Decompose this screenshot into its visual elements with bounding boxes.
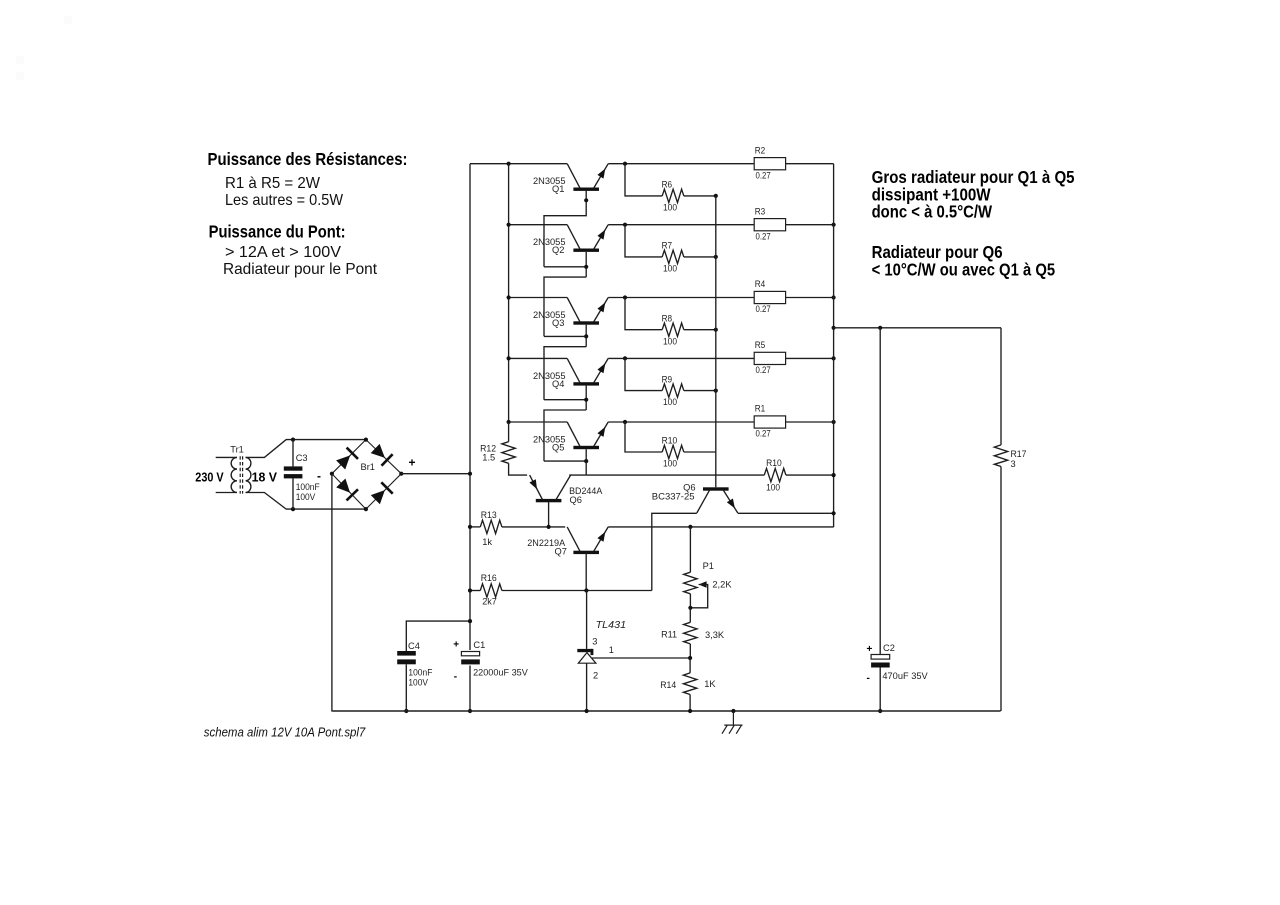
svg-text:3: 3 bbox=[592, 637, 597, 647]
wire R9 to bus bbox=[684, 390, 716, 392]
text block: Puissance des Résistances bbox=[208, 149, 408, 209]
svg-text:+: + bbox=[867, 644, 873, 655]
transistor Q1 2N3055 bbox=[533, 164, 608, 195]
wire top bus bbox=[470, 163, 567, 165]
svg-text:3,3K: 3,3K bbox=[705, 630, 725, 640]
svg-text:R10: R10 bbox=[662, 436, 678, 446]
node output bus R4 bbox=[832, 295, 836, 299]
wire TL431 ref bbox=[592, 657, 690, 659]
wire emitter drop Q4 bbox=[625, 358, 662, 390]
svg-text:R1: R1 bbox=[755, 404, 766, 414]
resistor R5 0.27 bbox=[754, 340, 785, 375]
svg-text:Tr1: Tr1 bbox=[230, 444, 244, 454]
resistor R13 1k bbox=[470, 510, 565, 547]
node R8 bus bbox=[714, 328, 718, 332]
svg-text:-: - bbox=[317, 469, 321, 483]
node emitter Q5 bbox=[623, 420, 627, 424]
wire emitter drop Q2 bbox=[625, 225, 662, 257]
node output bus R3 bbox=[832, 223, 836, 227]
transistor Q6 BC337-25 bbox=[652, 482, 738, 513]
node Q6b emitter / output bus bbox=[832, 511, 836, 515]
wire collector bus bbox=[508, 164, 510, 422]
svg-text:3: 3 bbox=[1011, 459, 1016, 469]
svg-text:100: 100 bbox=[663, 397, 677, 407]
node C1 rail bbox=[468, 709, 472, 713]
svg-text:R11: R11 bbox=[661, 629, 677, 639]
wire left bus bbox=[469, 164, 471, 711]
svg-text:Br1: Br1 bbox=[361, 462, 375, 472]
wire bridge + output bbox=[401, 473, 470, 475]
wire ground rail bbox=[332, 710, 1000, 712]
svg-text:> 12A et > 100V: > 12A et > 100V bbox=[225, 244, 341, 261]
wire Q6b collector bbox=[652, 513, 697, 590]
wire R10 to bus bbox=[684, 451, 716, 453]
node emitter Q3 bbox=[623, 295, 627, 299]
wire collector Q3 bbox=[509, 297, 568, 299]
node base Q2 bbox=[584, 265, 588, 269]
node Q6 base / Q7 collector bbox=[547, 525, 551, 529]
svg-text:Puissance du Pont:: Puissance du Pont: bbox=[209, 222, 346, 242]
svg-text:R8: R8 bbox=[662, 313, 673, 323]
svg-text:0.27: 0.27 bbox=[756, 304, 771, 314]
node collector bus Q5 bbox=[507, 420, 511, 424]
svg-text:230 V: 230 V bbox=[195, 469, 223, 484]
node collector bus Q2 bbox=[507, 223, 511, 227]
svg-text:1.5: 1.5 bbox=[482, 452, 495, 462]
bridge rectifier Br1 bbox=[317, 438, 416, 512]
svg-text:1K: 1K bbox=[704, 679, 716, 689]
wire base Q2 bbox=[544, 266, 586, 268]
wire emitter Q1 bbox=[608, 163, 754, 165]
node C3 bottom bbox=[291, 507, 295, 511]
wire base chain bbox=[544, 347, 586, 400]
wire base chain bbox=[544, 410, 586, 461]
wire emitter Q2 bbox=[608, 224, 754, 226]
svg-text:Radiateur pour le Pont: Radiateur pour le Pont bbox=[223, 261, 378, 278]
resistor R10 100 bbox=[662, 436, 684, 469]
svg-text:100: 100 bbox=[663, 203, 677, 213]
svg-text:P1: P1 bbox=[703, 561, 714, 571]
svg-text:Puissance des Résistances:: Puissance des Résistances: bbox=[208, 149, 408, 169]
svg-text:R2: R2 bbox=[755, 145, 766, 155]
svg-text:+: + bbox=[409, 456, 416, 470]
resistor R10b 100 bbox=[764, 458, 786, 492]
svg-text:Q5: Q5 bbox=[552, 443, 564, 453]
node output bus R1 bbox=[832, 420, 836, 424]
svg-text:100V: 100V bbox=[296, 492, 316, 502]
node TL431 rail bbox=[585, 709, 589, 713]
svg-text:TL431: TL431 bbox=[596, 619, 627, 631]
wire base Q5 bbox=[544, 460, 586, 462]
wire emitter drop Q1 bbox=[625, 164, 662, 196]
wire Q7 base bbox=[585, 553, 587, 591]
resistor R3 0.27 bbox=[754, 206, 785, 241]
wire driver line bbox=[586, 474, 764, 476]
wire emitter Q4 bbox=[608, 357, 754, 359]
wire emitter Q5 bbox=[608, 421, 754, 423]
node C2 rail bbox=[878, 709, 882, 713]
svg-text:Q2: Q2 bbox=[552, 245, 564, 255]
node C4 rail bbox=[404, 709, 408, 713]
wire collector Q5 bbox=[509, 421, 568, 423]
regulator TL431 bbox=[577, 591, 626, 712]
faint scan artifact bbox=[16, 16, 72, 80]
node C4 bus bbox=[468, 619, 472, 623]
svg-text:R6: R6 bbox=[662, 180, 673, 190]
svg-text:R14: R14 bbox=[660, 680, 676, 690]
capacitor C2 470uF bbox=[867, 328, 929, 711]
wire base Q3 bbox=[544, 335, 586, 337]
svg-text:Q3: Q3 bbox=[552, 318, 564, 328]
wire base bus BC337 bbox=[715, 196, 717, 487]
svg-text:Q4: Q4 bbox=[552, 379, 564, 389]
wire base chain bbox=[544, 277, 586, 336]
wire emitter drop Q5 bbox=[625, 422, 662, 452]
node output tap bbox=[832, 326, 836, 330]
node C3 top bbox=[291, 438, 295, 442]
svg-text:2: 2 bbox=[593, 671, 598, 681]
transistor Q5 2N3055 bbox=[533, 422, 608, 453]
node output bus R5 bbox=[832, 356, 836, 360]
node emitter Q2 bbox=[623, 223, 627, 227]
wire R2 out bbox=[786, 163, 834, 165]
text block: Radiateur pour Q6 bbox=[872, 242, 1056, 279]
wire R7 to bus bbox=[684, 256, 716, 258]
svg-text:C3: C3 bbox=[296, 453, 308, 463]
wire R4 out bbox=[786, 297, 834, 299]
node R9 bus bbox=[714, 389, 718, 393]
svg-text:1: 1 bbox=[609, 645, 614, 655]
svg-text:R4: R4 bbox=[755, 279, 766, 289]
resistor R7 100 bbox=[662, 241, 684, 274]
svg-text:0.27: 0.27 bbox=[756, 231, 771, 241]
transistor Q2 2N3055 bbox=[533, 225, 608, 256]
wire R3 out bbox=[786, 224, 834, 226]
svg-text:R9: R9 bbox=[662, 374, 673, 384]
svg-text:18 V: 18 V bbox=[252, 469, 278, 484]
ground bbox=[722, 709, 743, 734]
node Q7 base / TL431 bbox=[584, 588, 588, 592]
resistor R14 1K bbox=[660, 658, 716, 711]
svg-text:100nF: 100nF bbox=[296, 482, 320, 492]
svg-text:100V: 100V bbox=[408, 678, 428, 688]
svg-text:R7: R7 bbox=[662, 241, 673, 251]
node bridge+ / bus bbox=[468, 472, 472, 476]
svg-text:100: 100 bbox=[663, 336, 677, 346]
svg-text:-: - bbox=[454, 672, 457, 683]
svg-text:2k7: 2k7 bbox=[482, 597, 497, 607]
node TL431 ref / R14 bbox=[688, 656, 692, 660]
wire R1 out bbox=[786, 421, 834, 423]
wire base Q4 bbox=[544, 399, 586, 401]
svg-text:R5: R5 bbox=[755, 340, 766, 350]
node output bus R10b bbox=[832, 473, 836, 477]
text block: Gros radiateur bbox=[872, 167, 1075, 222]
resistor R16 2k7 bbox=[470, 573, 586, 607]
wire Q6b emitter bbox=[738, 512, 834, 514]
resistor R11 3,3K bbox=[661, 608, 725, 658]
wire emitter drop Q3 bbox=[625, 298, 662, 330]
svg-text:0.27: 0.27 bbox=[756, 429, 771, 439]
svg-text:100: 100 bbox=[766, 482, 780, 492]
wire R8 to bus bbox=[684, 329, 716, 331]
svg-text:470uF 35V: 470uF 35V bbox=[882, 671, 928, 681]
svg-text:Q1: Q1 bbox=[552, 184, 564, 194]
node base Q4 bbox=[584, 398, 588, 402]
node collector bus Q3 bbox=[507, 295, 511, 299]
node P1 wiper / R11 bbox=[688, 606, 692, 610]
wire R16 to Q6b collector bbox=[586, 590, 651, 592]
svg-text:Q6: Q6 bbox=[570, 495, 582, 505]
transistor Q7 2N2219A bbox=[527, 527, 608, 557]
svg-text:R10: R10 bbox=[766, 458, 782, 468]
wire collector Q2 bbox=[509, 224, 568, 226]
svg-text:22000uF 35V: 22000uF 35V bbox=[473, 667, 528, 677]
resistor R4 0.27 bbox=[754, 279, 785, 314]
transistor Q3 2N3055 bbox=[533, 298, 608, 329]
wire Q6 base bbox=[548, 502, 550, 527]
potentiometer P1 2,2K bbox=[684, 527, 733, 608]
node emitter Q4 bbox=[623, 356, 627, 360]
node P1 top bbox=[688, 525, 692, 529]
node collector bus Q4 bbox=[507, 356, 511, 360]
node R7 bus bbox=[714, 255, 718, 259]
wire output line bbox=[834, 327, 1001, 329]
svg-text:C4: C4 bbox=[408, 641, 420, 651]
svg-text:schema alim 12V 10A Pont.spl7: schema alim 12V 10A Pont.spl7 bbox=[204, 724, 366, 739]
wire output bus bbox=[833, 164, 835, 527]
wire secondary bottom bbox=[246, 493, 366, 510]
svg-text:+: + bbox=[453, 639, 459, 650]
wire emitter Q3 bbox=[608, 297, 754, 299]
wire Q7 emitter line bbox=[608, 526, 834, 528]
svg-text:1k: 1k bbox=[482, 537, 492, 547]
wire R5 out bbox=[786, 357, 834, 359]
svg-text:donc < à 0.5°C/W: donc < à 0.5°C/W bbox=[872, 202, 993, 222]
capacitor C1 22000uF bbox=[453, 639, 528, 682]
svg-text:100: 100 bbox=[663, 264, 677, 274]
resistor R1 0.27 bbox=[754, 404, 785, 439]
node base Q1 bbox=[584, 198, 588, 202]
capacitor C4 100nF bbox=[397, 621, 470, 711]
node top bus / collector bus bbox=[507, 162, 511, 166]
svg-text:0.27: 0.27 bbox=[756, 170, 771, 180]
resistor R12 1.5 bbox=[480, 422, 527, 475]
svg-text:R1 à R5 = 2W: R1 à R5 = 2W bbox=[225, 175, 321, 192]
wire collector Q4 bbox=[509, 357, 568, 359]
svg-text:100: 100 bbox=[663, 459, 677, 469]
capacitor C3 bbox=[284, 440, 320, 510]
node R13 bus bbox=[468, 525, 472, 529]
svg-text:R17: R17 bbox=[1011, 449, 1027, 459]
svg-text:R13: R13 bbox=[481, 510, 497, 520]
node C2 tap bbox=[878, 326, 882, 330]
wire R10b to output bus bbox=[786, 474, 834, 476]
node R14 rail bbox=[688, 709, 692, 713]
transistor Q4 2N3055 bbox=[533, 358, 608, 389]
resistor R6 100 bbox=[662, 180, 684, 213]
wire secondary top bbox=[246, 440, 366, 458]
resistor R2 0.27 bbox=[754, 145, 785, 180]
svg-text:2,2K: 2,2K bbox=[712, 580, 732, 590]
transistor Q6 BD244A bbox=[529, 475, 603, 505]
svg-text:C2: C2 bbox=[883, 643, 895, 653]
wire bridge - down bbox=[331, 474, 333, 711]
svg-text:Q7: Q7 bbox=[555, 546, 567, 556]
wire Q6 collector bbox=[569, 474, 586, 476]
resistor R9 100 bbox=[662, 374, 684, 407]
svg-text:R16: R16 bbox=[481, 573, 497, 583]
node R16 bus bbox=[468, 588, 472, 592]
svg-text:-: - bbox=[867, 673, 870, 684]
node emitter Q1 bbox=[623, 162, 627, 166]
wire R6 to bus bbox=[684, 195, 716, 197]
resistor R8 100 bbox=[662, 313, 684, 346]
svg-text:< 10°C/W ou avec Q1 à Q5: < 10°C/W ou avec Q1 à Q5 bbox=[872, 259, 1056, 279]
svg-text:100nF: 100nF bbox=[408, 667, 432, 677]
resistor R17 3 bbox=[994, 328, 1026, 711]
svg-text:C1: C1 bbox=[473, 640, 485, 650]
transformer Tr1 bbox=[195, 444, 277, 493]
svg-text:R3: R3 bbox=[755, 206, 766, 216]
svg-text:BC337-25: BC337-25 bbox=[652, 492, 695, 502]
wire Q5 base to driver bbox=[585, 461, 587, 475]
node R6 bus bbox=[714, 194, 718, 198]
svg-text:0.27: 0.27 bbox=[756, 365, 771, 375]
node base Q5 bbox=[584, 459, 588, 463]
node base Q3 bbox=[584, 334, 588, 338]
text block: Puissance du Pont bbox=[209, 222, 378, 278]
svg-text:Les autres = 0.5W: Les autres = 0.5W bbox=[225, 192, 344, 209]
wire base chain Q1 bbox=[544, 191, 586, 267]
